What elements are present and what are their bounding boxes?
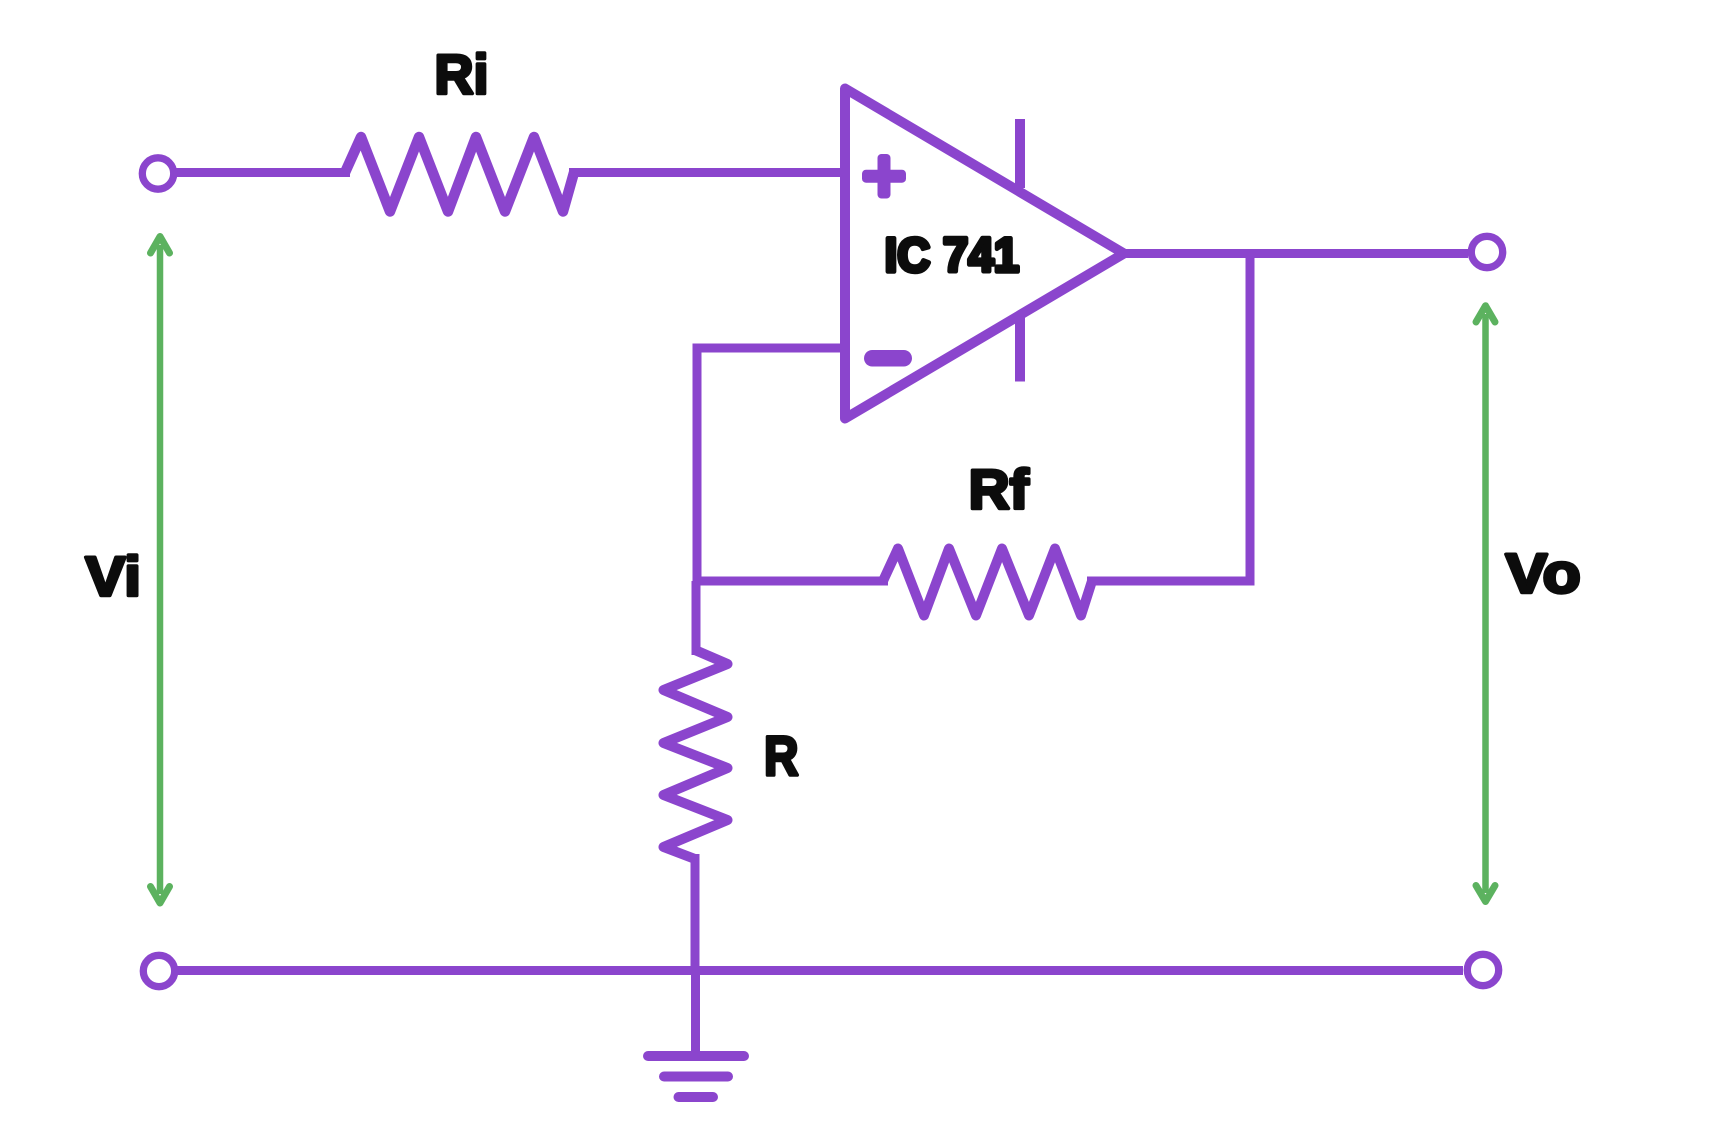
wire output [1118, 249, 1468, 258]
wire Rf right lead [1087, 577, 1255, 586]
resistor R [664, 650, 728, 859]
wire ground lead [691, 971, 700, 1052]
wire bottom rail [160, 966, 1463, 975]
voltage arrow Vi [151, 237, 170, 904]
resistor Ri [345, 137, 574, 212]
plus marker [862, 154, 906, 199]
wire inverting input (from op-amp minus to feedback node) [697, 348, 845, 581]
power pin V+ [1015, 119, 1025, 188]
power pin V- [1015, 317, 1025, 382]
resistor Rf [883, 549, 1092, 616]
terminal Vi+ (top left) [142, 158, 173, 189]
op-amp body [845, 89, 1124, 419]
svg-text:IC 741: IC 741 [885, 230, 1020, 283]
terminal Vi- (bottom left) [143, 955, 174, 986]
terminal Vo- (bottom right) [1467, 954, 1498, 985]
op-amp U1 IC 741 [845, 89, 1124, 419]
svg-text:R: R [764, 724, 799, 787]
svg-text:Ri: Ri [435, 43, 489, 106]
minus marker [864, 350, 912, 367]
wire R top lead [692, 581, 701, 655]
voltage arrow Vo [1476, 306, 1495, 902]
wire input left segment [174, 168, 350, 177]
wire feedback vertical right [1246, 250, 1255, 586]
ground [648, 1056, 744, 1097]
svg-text:Vo: Vo [1506, 542, 1581, 605]
svg-text:Rf: Rf [969, 458, 1029, 521]
terminal Vo+ (top right) [1471, 236, 1502, 267]
wire Rf left lead [693, 577, 889, 586]
wire R bottom lead [691, 854, 700, 975]
wire input right segment to op-amp [569, 168, 845, 177]
svg-text:Vi: Vi [85, 545, 141, 608]
